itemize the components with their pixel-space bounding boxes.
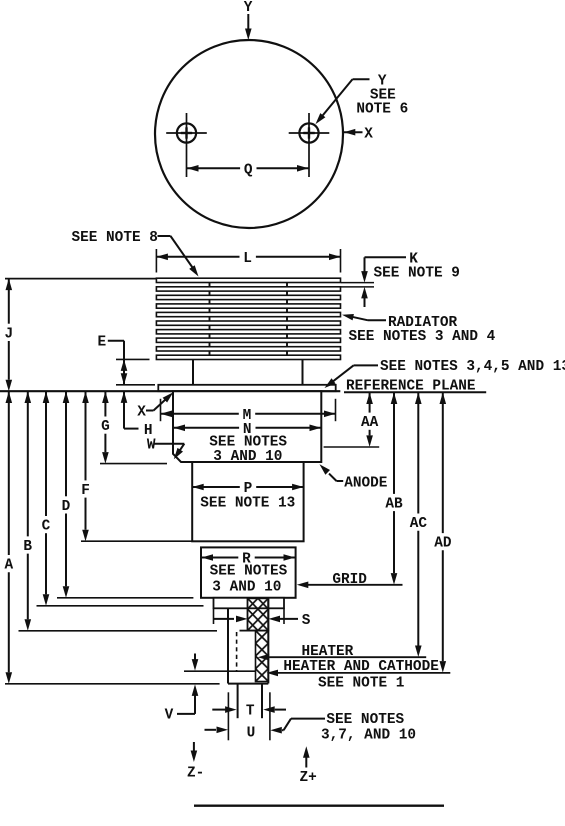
svg-text:Z-: Z- <box>187 765 204 781</box>
svg-text:L: L <box>243 251 252 267</box>
svg-text:F: F <box>81 483 90 499</box>
svg-text:SEE NOTE 1: SEE NOTE 1 <box>318 676 405 692</box>
svg-text:AA: AA <box>361 415 379 431</box>
svg-text:X: X <box>364 126 373 142</box>
svg-text:Z+: Z+ <box>300 770 317 786</box>
svg-text:T: T <box>246 704 255 720</box>
svg-text:SEE NOTES 3 AND 4: SEE NOTES 3 AND 4 <box>349 329 496 345</box>
svg-text:Q: Q <box>244 162 253 178</box>
svg-text:D: D <box>62 499 71 515</box>
svg-text:A: A <box>5 558 14 574</box>
svg-text:SEE NOTES: SEE NOTES <box>210 564 288 580</box>
svg-text:U: U <box>247 725 256 741</box>
svg-text:W: W <box>147 438 156 454</box>
svg-text:3 AND 10: 3 AND 10 <box>212 580 281 596</box>
svg-text:3,7, AND 10: 3,7, AND 10 <box>321 728 416 744</box>
svg-text:SEE NOTES: SEE NOTES <box>326 712 404 728</box>
svg-text:SEE NOTE 8: SEE NOTE 8 <box>72 230 158 246</box>
svg-text:E: E <box>98 335 107 351</box>
svg-text:Y: Y <box>244 0 253 16</box>
svg-text:AB: AB <box>385 496 403 512</box>
svg-text:AC: AC <box>410 516 428 532</box>
svg-text:ANODE: ANODE <box>344 476 388 492</box>
svg-text:X: X <box>137 405 146 421</box>
svg-text:SEE NOTES 3,4,5 AND 13: SEE NOTES 3,4,5 AND 13 <box>380 359 565 375</box>
svg-text:H: H <box>144 423 153 439</box>
svg-text:AD: AD <box>434 536 452 552</box>
svg-text:SEE NOTE 13: SEE NOTE 13 <box>200 496 295 512</box>
svg-text:G: G <box>101 419 110 435</box>
svg-text:C: C <box>42 519 51 535</box>
svg-text:S: S <box>302 613 311 629</box>
svg-text:V: V <box>165 707 174 723</box>
svg-text:J: J <box>5 326 14 342</box>
svg-text:SEE NOTE 9: SEE NOTE 9 <box>374 266 460 282</box>
svg-text:NOTE 6: NOTE 6 <box>356 102 408 118</box>
svg-text:B: B <box>23 539 32 555</box>
